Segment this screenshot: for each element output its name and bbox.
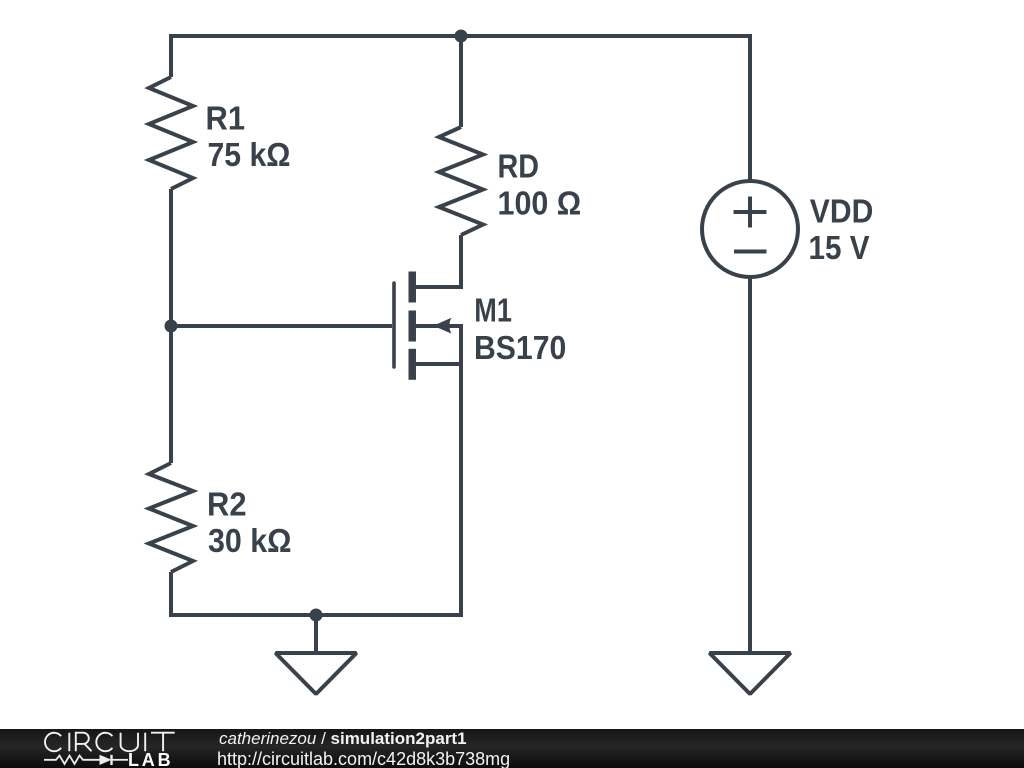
wire: VDD minus lead down to ground bbox=[748, 277, 752, 653]
source VDD circle bbox=[702, 181, 798, 277]
wire: top rail from R1 top-left corner to node at RD bbox=[171, 36, 461, 77]
svg-text:15 V: 15 V bbox=[809, 230, 871, 267]
resistor R1 bbox=[149, 77, 193, 189]
wire: M1 source lead bbox=[412, 362, 461, 366]
wire: RD bottom lead into M1 drain bbox=[414, 235, 461, 287]
CircuitLab logo resistor-diode squiggle bbox=[38, 750, 130, 768]
svg-text:RD: RD bbox=[498, 149, 540, 186]
wire: M1 bulk lead to source corner bbox=[416, 326, 461, 364]
wire: R1 bottom to gate node to R2 top bbox=[169, 189, 173, 463]
footer bar bbox=[0, 729, 1024, 768]
svg-text:R2: R2 bbox=[207, 487, 247, 524]
resistor R2 bbox=[149, 463, 193, 572]
resistor RD bbox=[439, 127, 483, 235]
transistor M1 gate electrode line bbox=[392, 283, 396, 367]
footer text: circuit URL bbox=[217, 749, 510, 768]
svg-text:M1: M1 bbox=[474, 292, 512, 329]
CircuitLab logo wordmark LAB bbox=[128, 750, 173, 768]
ground symbol right bbox=[710, 653, 791, 694]
transistor M1 bulk arrow bbox=[433, 318, 451, 334]
wire: ground stem on bottom rail bbox=[314, 615, 318, 653]
source VDD minus sign bbox=[734, 250, 767, 254]
svg-text:BS170: BS170 bbox=[474, 330, 566, 367]
transistor M1 channel bars bbox=[409, 272, 417, 380]
ground symbol left bbox=[276, 653, 357, 694]
svg-text:VDD: VDD bbox=[810, 193, 874, 230]
node: junction dot at top rail / RD bbox=[455, 30, 468, 43]
node: junction dot at bottom rail / ground bbox=[310, 609, 323, 622]
footer text: author / title bbox=[219, 729, 467, 749]
CircuitLab logo wordmark CIRCUIT bbox=[40, 730, 180, 754]
source VDD plus sign bbox=[734, 197, 767, 228]
svg-text:75 kΩ: 75 kΩ bbox=[208, 137, 291, 174]
node: junction dot at gate / divider bbox=[165, 320, 178, 333]
wire: node down to RD top lead bbox=[459, 36, 463, 127]
wire: R2 bottom lead, bottom rail, up to M1 source bbox=[171, 364, 461, 615]
svg-text:30 kΩ: 30 kΩ bbox=[208, 523, 292, 560]
svg-text:100 Ω: 100 Ω bbox=[498, 185, 582, 222]
wire: top rail from node to VDD branch, down to source circle bbox=[461, 36, 750, 181]
wire: gate lead from node to M1 gate bbox=[171, 324, 392, 328]
svg-text:R1: R1 bbox=[206, 101, 246, 138]
